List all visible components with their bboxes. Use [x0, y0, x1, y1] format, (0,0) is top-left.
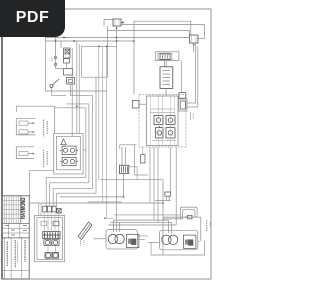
- svg-text:RAYMOND: RAYMOND: [20, 197, 27, 219]
